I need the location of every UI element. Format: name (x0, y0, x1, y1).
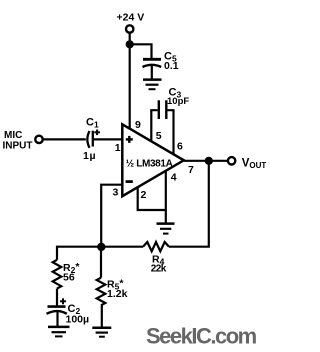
wire output node down to R4 (169, 161, 209, 247)
wire pin 3 to feedback node (101, 185, 122, 247)
pin 7 label (188, 164, 194, 176)
wire op-amp output to VOUT (184, 160, 228, 162)
svg-text:9: 9 (135, 119, 141, 131)
wire R5 to ground (101, 305, 103, 327)
svg-text:4: 4 (171, 172, 177, 184)
ground (pins 2,4) (157, 224, 175, 234)
label C3 (169, 86, 182, 99)
wire C3 to pin 6 (168, 110, 174, 156)
ground (R5) (92, 328, 111, 337)
label +24V (117, 12, 145, 24)
value 1u (83, 150, 96, 162)
capacitor C2 (47, 307, 67, 314)
plus mark (noninverting input) (126, 136, 133, 143)
svg-text:3: 3 (113, 187, 119, 199)
pin 3 label (113, 187, 119, 199)
wire R4 to feedback node (101, 246, 143, 248)
label R4 (152, 254, 165, 267)
value 10pF (167, 96, 189, 107)
svg-text:1.2k: 1.2k (107, 288, 128, 300)
svg-text:22k: 22k (151, 264, 167, 275)
plus mark C2 (60, 298, 66, 304)
svg-text:1µ: 1µ (83, 150, 96, 162)
minus mark (inverting input) (126, 180, 133, 183)
resistor R2 (53, 260, 62, 289)
wire node C down to R5 (100, 247, 102, 278)
svg-text:10pF: 10pF (167, 96, 189, 107)
label C5 (164, 51, 177, 64)
svg-text:½ LM381A: ½ LM381A (126, 158, 173, 169)
pin 5 label (156, 130, 162, 142)
label MIC INPUT (3, 130, 33, 152)
svg-text:2: 2 (141, 189, 147, 201)
plus mark C1 (94, 130, 100, 136)
watermark SeekIC.com (146, 324, 257, 349)
svg-text:SeekIC.com: SeekIC.com (146, 324, 257, 349)
terminal +24V (126, 25, 133, 32)
wire +24V terminal to node A (129, 33, 131, 44)
label VOUT (242, 158, 267, 170)
value 56 (63, 272, 75, 284)
svg-text:+24 V: +24 V (117, 12, 145, 24)
wire pin 4 down to ground (165, 171, 167, 224)
value 1.2k (107, 288, 128, 300)
terminal MIC INPUT (35, 136, 42, 143)
wire C1 to pin 1 (94, 138, 122, 140)
wire node C left to R2 (57, 247, 101, 260)
pin 4 label (171, 172, 177, 184)
label R5* (107, 278, 124, 292)
svg-text:7: 7 (188, 164, 194, 176)
svg-text:0.1: 0.1 (164, 60, 179, 72)
op-amp name label (126, 158, 173, 169)
svg-text:100µ: 100µ (66, 313, 90, 325)
wire C2 to ground (56, 312, 58, 327)
op-amp U1 (1/2 LM381A) (122, 124, 184, 196)
wire pin 5 to C3 (151, 110, 157, 143)
resistor R4 (143, 242, 169, 251)
ground (C2) (48, 327, 70, 337)
capacitor C1 (87, 131, 92, 148)
node B (output junction) (205, 157, 213, 165)
node C (feedback junction) (97, 243, 105, 251)
resistor R5 (97, 278, 106, 306)
capacitor C5 (143, 59, 162, 67)
wire MIC terminal to C1 (43, 138, 86, 140)
wire node A to C5 (130, 44, 152, 58)
label R2* (63, 261, 80, 275)
pin 1 label (115, 142, 121, 154)
value 22k (151, 264, 167, 275)
pin 2 label (141, 189, 147, 201)
wire supply node A down to op-amp pin 9 (129, 44, 131, 129)
svg-text:1: 1 (115, 142, 121, 154)
capacitor C3 (159, 100, 167, 119)
label C2 (68, 303, 81, 316)
terminal VOUT (228, 157, 235, 164)
pin 9 label (135, 119, 141, 131)
ground (C5) (143, 80, 162, 90)
pin 6 label (177, 141, 183, 153)
wire pin 2 down and right (138, 188, 166, 211)
wire C5 to ground (151, 66, 153, 80)
svg-text:5: 5 (156, 130, 162, 142)
label C1 (86, 116, 99, 129)
wire R2 to C2 (56, 289, 58, 306)
svg-text:6: 6 (177, 141, 183, 153)
svg-text:56: 56 (63, 272, 75, 284)
svg-text:MIC: MIC (4, 130, 22, 141)
svg-text:INPUT: INPUT (3, 141, 33, 152)
value 100u (66, 313, 90, 325)
value 0.1 (164, 60, 179, 72)
node A (supply junction) (126, 40, 134, 48)
